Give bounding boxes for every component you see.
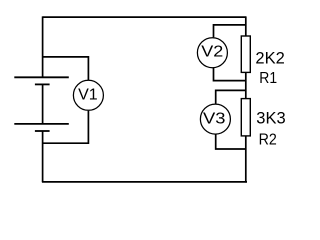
svg-text:V3: V3 xyxy=(203,110,226,127)
battery B1 long plate 1 xyxy=(14,76,69,78)
wire right vertical bottom xyxy=(245,136,247,183)
wire top xyxy=(43,16,246,18)
wire V3 top branch xyxy=(216,90,246,103)
wire left-top vertical xyxy=(42,16,44,77)
voltmeter V2 circle xyxy=(197,38,227,68)
battery B1 short plate 1 xyxy=(35,83,50,85)
voltmeter V1 circle xyxy=(73,80,103,110)
svg-text:R1: R1 xyxy=(259,70,277,87)
svg-text:R2: R2 xyxy=(259,132,277,149)
battery B1 short plate 2 xyxy=(35,130,50,132)
svg-text:V1: V1 xyxy=(78,87,98,104)
wire V2 bottom branch xyxy=(214,68,246,81)
svg-text:2K2: 2K2 xyxy=(255,49,284,67)
wire V3 bottom branch xyxy=(216,134,246,149)
resistor R1 body xyxy=(241,36,250,72)
resistor R2 body xyxy=(241,99,250,136)
svg-text:V2: V2 xyxy=(201,44,223,61)
wire battery mid vertical xyxy=(42,84,44,124)
svg-text:3K3: 3K3 xyxy=(256,109,285,127)
wire right vertical top xyxy=(245,16,247,36)
wire bottom xyxy=(42,181,247,183)
wire V2 top branch xyxy=(214,25,246,38)
wire V1 top branch xyxy=(43,57,89,80)
wire V1 bottom branch xyxy=(43,111,89,144)
voltmeter V3 circle xyxy=(200,104,230,134)
wire right vertical mid xyxy=(245,72,247,98)
battery B1 long plate 2 xyxy=(14,123,69,125)
wire left-bottom vertical xyxy=(42,131,44,182)
